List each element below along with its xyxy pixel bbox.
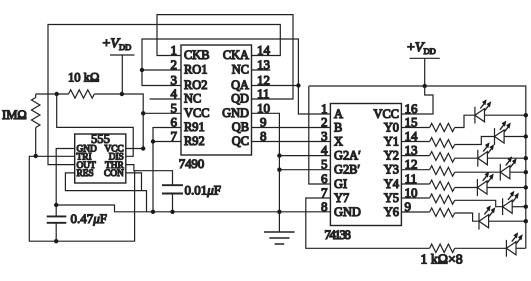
svg-text:9: 9 — [405, 199, 412, 214]
svg-text:QD: QD — [231, 92, 249, 106]
svg-text:6: 6 — [321, 171, 328, 186]
svg-text:1: 1 — [171, 43, 178, 58]
IC 7490 box — [181, 45, 252, 155]
svg-text:2: 2 — [321, 115, 328, 130]
svg-text:RO2: RO2 — [184, 78, 207, 92]
wire: 7490 GND pin 10 down to ground symbol — [252, 113, 280, 232]
resistor R 1k (Y7) — [430, 244, 455, 252]
wire Y3 pin 12 — [401, 170, 500, 173]
IC 555 box — [75, 134, 126, 183]
svg-text:8: 8 — [321, 199, 328, 214]
LED D6 (Y6) — [479, 205, 495, 229]
junction 555 VCC — [141, 146, 145, 150]
wire: 555 GND down and right into ground rail — [56, 149, 330, 212]
svg-text:B: B — [334, 120, 342, 134]
LED D5 (Y5) — [503, 191, 519, 215]
resistor R 1k (Y0) — [430, 123, 455, 131]
wire: 555 RES down and right to ground rail — [65, 173, 146, 212]
svg-text:0.01μF: 0.01μF — [185, 182, 222, 197]
wire: 555 CON down to reset wire — [126, 173, 142, 191]
svg-text:RES: RES — [77, 169, 94, 179]
LED D2 (Y2) — [478, 142, 494, 166]
wire LED Y1 anode to rail — [504, 136, 526, 138]
svg-text:Y5: Y5 — [384, 191, 399, 205]
svg-text:4: 4 — [171, 86, 178, 101]
svg-text:QC: QC — [232, 134, 249, 148]
svg-text:3: 3 — [321, 129, 328, 144]
svg-text:G2B′: G2B′ — [334, 163, 360, 177]
svg-text:7490: 7490 — [179, 156, 204, 171]
junction rail Y6 — [524, 219, 528, 223]
wire Y1 pin 14 — [401, 137, 494, 145]
svg-text:5: 5 — [171, 100, 178, 115]
wire Y6 pin 9 — [401, 212, 479, 221]
svg-text:VCC: VCC — [184, 106, 209, 120]
wire: 555 OUT up and over to 7490 CKA pin 14 — [48, 25, 280, 165]
svg-text:R92: R92 — [184, 134, 205, 148]
junction rail Y4 — [524, 185, 528, 189]
resistor R 1k (Y3) — [430, 166, 455, 177]
LED D3 (Y3) — [500, 156, 516, 180]
ground symbol — [264, 232, 295, 244]
svg-text:5: 5 — [321, 157, 328, 172]
svg-text:9: 9 — [260, 115, 267, 130]
svg-text:14: 14 — [405, 129, 419, 144]
svg-text:8: 8 — [260, 129, 267, 144]
svg-text:13: 13 — [257, 57, 270, 72]
junction rail R9x — [151, 210, 155, 214]
junction rail Y5 — [524, 205, 528, 209]
junction VDD right stem — [423, 84, 427, 88]
LED D1 (Y1) — [495, 121, 511, 145]
wire 7490 VCC pin 5 — [143, 112, 181, 114]
junction cap 0.01 bottom — [170, 210, 174, 214]
wire QA pin 12 stub — [252, 85, 299, 87]
wire: 74138 GI pin 6 up to VDD rail — [309, 86, 331, 184]
LED D0 (Y0) — [475, 99, 491, 123]
svg-text:Y0: Y0 — [384, 120, 399, 134]
svg-text:11: 11 — [257, 86, 270, 101]
junction QA — [296, 83, 300, 87]
wire LED Y3 anode to rail — [510, 171, 526, 173]
wire Y0 pin 15 — [401, 115, 475, 127]
resistor R 1k (Y4) — [430, 180, 455, 191]
svg-text:GND: GND — [222, 106, 249, 120]
svg-text:QB: QB — [232, 120, 249, 134]
wire: 555 THR over to 0.01uF cap — [126, 165, 173, 186]
svg-text:1 kΩ×8: 1 kΩ×8 — [421, 252, 463, 267]
junction cap 0.47 bottom — [54, 239, 58, 243]
junction 555 GND cap — [54, 203, 58, 207]
svg-text:Y2: Y2 — [384, 148, 399, 162]
svg-text:RO1: RO1 — [184, 63, 207, 77]
junction 7490 VCC — [141, 111, 145, 115]
wire: 7490 NC pin 4 stub — [150, 98, 181, 100]
resistor R 1k (Y6) — [430, 208, 455, 217]
wire RO1 pin 2 — [142, 69, 181, 71]
capacitor C 0.01uF — [162, 185, 183, 212]
wire LED Y2 anode to rail — [487, 157, 525, 159]
svg-text:NC: NC — [232, 63, 249, 77]
svg-text:13: 13 — [405, 143, 418, 158]
svg-text:G2A′: G2A′ — [334, 148, 361, 162]
svg-text:74138: 74138 — [324, 227, 351, 242]
wire: 7490 QC pin 8 to 74138 X pin 3 — [252, 141, 331, 143]
svg-text:Y3: Y3 — [384, 163, 399, 177]
wire: 7490 NC pin 13 stub — [252, 69, 271, 71]
wire: 7490 QA pin 12 to RO1/RO2 and down to 74138 input A pin 1 — [142, 39, 330, 114]
junction node A left — [55, 92, 59, 96]
capacitor C 0.47uF — [47, 205, 67, 241]
svg-text:IMΩ: IMΩ — [2, 108, 27, 122]
svg-text:CKB: CKB — [184, 48, 209, 62]
svg-text:6: 6 — [171, 115, 178, 130]
wire Y2 pin 13 — [401, 156, 477, 159]
wire: 7490 QD pin 11 up and over to CKB pin 1 — [157, 15, 293, 99]
svg-text:Y1: Y1 — [384, 134, 399, 148]
wire LED Y7 anode to rail — [516, 247, 526, 249]
junction rail Y0 — [524, 113, 528, 117]
power +VDD left — [103, 37, 135, 95]
wire LED Y6 anode to rail — [489, 220, 526, 222]
wire: node B / 555 TRI down left side along bottom, up to THR net — [29, 156, 134, 241]
junction RO1 — [140, 68, 144, 72]
svg-text:Y7: Y7 — [334, 191, 349, 205]
wire: 74138 G2A' pin 4 to ground net — [279, 155, 330, 157]
wire LED Y0 anode to rail — [485, 114, 526, 116]
wire: 74138 G2B' pin 5 to ground net — [279, 169, 330, 171]
junction node B — [34, 154, 38, 158]
svg-text:CKA: CKA — [223, 48, 249, 62]
wire: 74138 Y7 pin 7 down and along bottom — [306, 198, 507, 248]
wire: 74138 VCC pin 16 jog up to rail — [401, 86, 433, 114]
resistor R 1M Ohm — [32, 94, 40, 156]
svg-text:GI: GI — [334, 177, 347, 191]
resistor R 10 kOhm — [69, 90, 95, 98]
LED D4 (Y4) — [477, 172, 493, 196]
wire: 7490 QB pin 9 to 74138 B pin 2 — [252, 127, 331, 129]
resistor R 1k (Y2) — [430, 152, 455, 163]
svg-text:NC: NC — [184, 92, 201, 106]
wire LED Y5 anode to rail — [512, 206, 526, 208]
svg-text:10 kΩ: 10 kΩ — [68, 71, 99, 85]
svg-text:12: 12 — [405, 157, 418, 172]
svg-text:2: 2 — [171, 57, 178, 72]
svg-text:Y6: Y6 — [384, 205, 399, 219]
IC 74138 box — [330, 104, 401, 226]
junction R92 — [151, 139, 155, 143]
resistor R 1k (Y5) — [430, 194, 455, 204]
junction rail Y3 — [524, 170, 528, 174]
svg-text:X: X — [334, 134, 343, 148]
svg-text:10: 10 — [257, 100, 270, 115]
junction GND rail — [277, 210, 281, 214]
power rail VDD top right and down right edge — [309, 86, 526, 248]
svg-text:7: 7 — [321, 185, 328, 200]
svg-text:R91: R91 — [184, 120, 205, 134]
wire: VDD / 10k rail down to 7490 VCC pin 5 and 555 VCC — [36, 94, 144, 149]
svg-text:11: 11 — [405, 171, 418, 186]
wire Y5 pin 10 — [401, 198, 502, 207]
svg-text:10: 10 — [405, 185, 418, 200]
wire 555 VCC — [126, 148, 143, 150]
svg-text:GND: GND — [334, 205, 361, 219]
svg-text:15: 15 — [405, 115, 418, 130]
wire: 7490 R91/R92 pins 6,7 down to ground rail — [153, 128, 181, 212]
junction VDD stem — [120, 92, 124, 96]
svg-text:CON: CON — [104, 169, 124, 179]
svg-text:A: A — [334, 107, 343, 121]
wire: 555 DIS up to node A — [57, 94, 134, 156]
svg-text:VCC: VCC — [374, 107, 399, 121]
svg-text:7: 7 — [171, 129, 178, 144]
resistor R 1k (Y1) — [430, 138, 455, 149]
svg-text:QA: QA — [231, 78, 249, 92]
LED D7 (Y7) — [506, 232, 522, 256]
junction rail Y2 — [524, 156, 528, 160]
svg-text:Y4: Y4 — [384, 177, 399, 191]
wire LED Y4 anode to rail — [487, 187, 526, 189]
svg-text:14: 14 — [257, 43, 271, 58]
power +VDD right — [407, 41, 440, 87]
wire Y4 pin 11 — [401, 184, 477, 188]
svg-text:4: 4 — [321, 143, 328, 158]
junction rail Y1 — [524, 134, 528, 138]
svg-text:0.47μF: 0.47μF — [71, 211, 108, 226]
